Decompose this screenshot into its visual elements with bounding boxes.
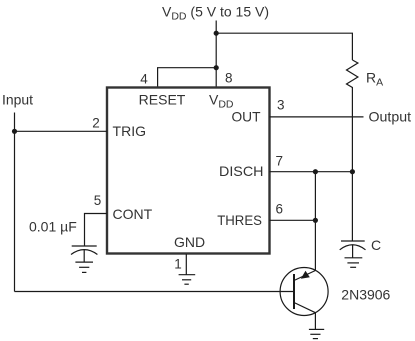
wire THRES node to transistor emitter xyxy=(314,172,316,271)
ground under transistor collector xyxy=(309,328,324,330)
wire RA bottom to capacitor C xyxy=(351,90,353,241)
junction dot input xyxy=(12,129,17,134)
svg-text:GND: GND xyxy=(174,234,205,250)
wire OUT pin 3 to output xyxy=(270,116,364,118)
junction dot DISCH left xyxy=(313,169,318,174)
svg-text:C: C xyxy=(371,237,381,253)
junction dot VDD top xyxy=(214,31,219,36)
ground under capacitor C xyxy=(345,257,363,259)
node Input label xyxy=(2,92,33,108)
pin 6 label xyxy=(276,201,284,216)
pin GND name xyxy=(174,234,205,250)
svg-text:7: 7 xyxy=(276,154,284,169)
junction dot DISCH right xyxy=(350,169,355,174)
pin 5 label xyxy=(94,193,102,208)
svg-text:DISCH: DISCH xyxy=(219,163,264,179)
transistor Q1 2N3906 xyxy=(280,268,328,316)
svg-text:3: 3 xyxy=(277,97,285,112)
svg-text:Output: Output xyxy=(369,109,412,125)
node VDD supply label xyxy=(162,4,269,23)
pin 7 label xyxy=(276,154,284,169)
svg-text:2N3906: 2N3906 xyxy=(341,286,390,302)
wire VDD to RA xyxy=(216,33,352,60)
wire input to transistor base xyxy=(15,291,295,293)
wire collector to ground xyxy=(314,313,316,330)
svg-text:VDD: VDD xyxy=(209,92,234,111)
wire CONT pin 5 to capacitor xyxy=(85,214,108,247)
pin RESET name xyxy=(139,92,186,108)
wire input vertical xyxy=(14,113,16,292)
wire DISCH pin 7 xyxy=(270,171,353,173)
IC U1 555 timer box xyxy=(107,88,270,254)
svg-text:RA: RA xyxy=(366,70,383,89)
svg-text:8: 8 xyxy=(225,71,233,86)
resistor RA xyxy=(347,60,358,90)
ground under 0.01uF capacitor xyxy=(75,261,93,263)
svg-text:THRES: THRES xyxy=(217,212,262,228)
pin THRES name xyxy=(217,212,262,228)
svg-text:OUT: OUT xyxy=(232,109,261,125)
svg-text:5: 5 xyxy=(94,193,102,208)
svg-text:6: 6 xyxy=(276,201,284,216)
wire to TRIG pin 2 xyxy=(15,130,108,132)
pin CONT name xyxy=(113,206,153,222)
pin OUT name xyxy=(232,109,261,125)
pin TRIG name xyxy=(113,123,147,139)
junction dot THRES xyxy=(313,218,318,223)
svg-text:2: 2 xyxy=(92,116,100,131)
capacitor 0.01uF xyxy=(29,219,77,235)
pin VDD name xyxy=(209,92,234,111)
node Output label xyxy=(369,109,412,125)
pin 8 label xyxy=(225,71,233,86)
pin 1 label xyxy=(174,257,182,272)
svg-text:4: 4 xyxy=(140,72,148,87)
wire VDD vertical to pin 8 xyxy=(215,21,217,89)
pin 4 label xyxy=(140,72,148,87)
wire THRES pin 6 xyxy=(270,219,316,221)
svg-text:Input: Input xyxy=(2,92,33,108)
capacitor C xyxy=(341,240,365,242)
junction dot reset branch xyxy=(214,65,219,70)
pin 3 label xyxy=(277,97,285,112)
svg-text:0.01 µF: 0.01 µF xyxy=(29,219,77,235)
ground under pin 1 xyxy=(179,274,196,276)
svg-text:RESET: RESET xyxy=(139,92,186,108)
svg-text:TRIG: TRIG xyxy=(113,123,147,139)
svg-text:VDD (5 V to 15 V): VDD (5 V to 15 V) xyxy=(162,4,269,23)
pin DISCH name xyxy=(219,163,264,179)
svg-text:CONT: CONT xyxy=(113,206,153,222)
wire GND pin 1 stub xyxy=(185,254,187,275)
wire reset bracket to pin 4 xyxy=(158,68,217,88)
svg-text:1: 1 xyxy=(174,257,182,272)
pin 2 label xyxy=(92,116,100,131)
